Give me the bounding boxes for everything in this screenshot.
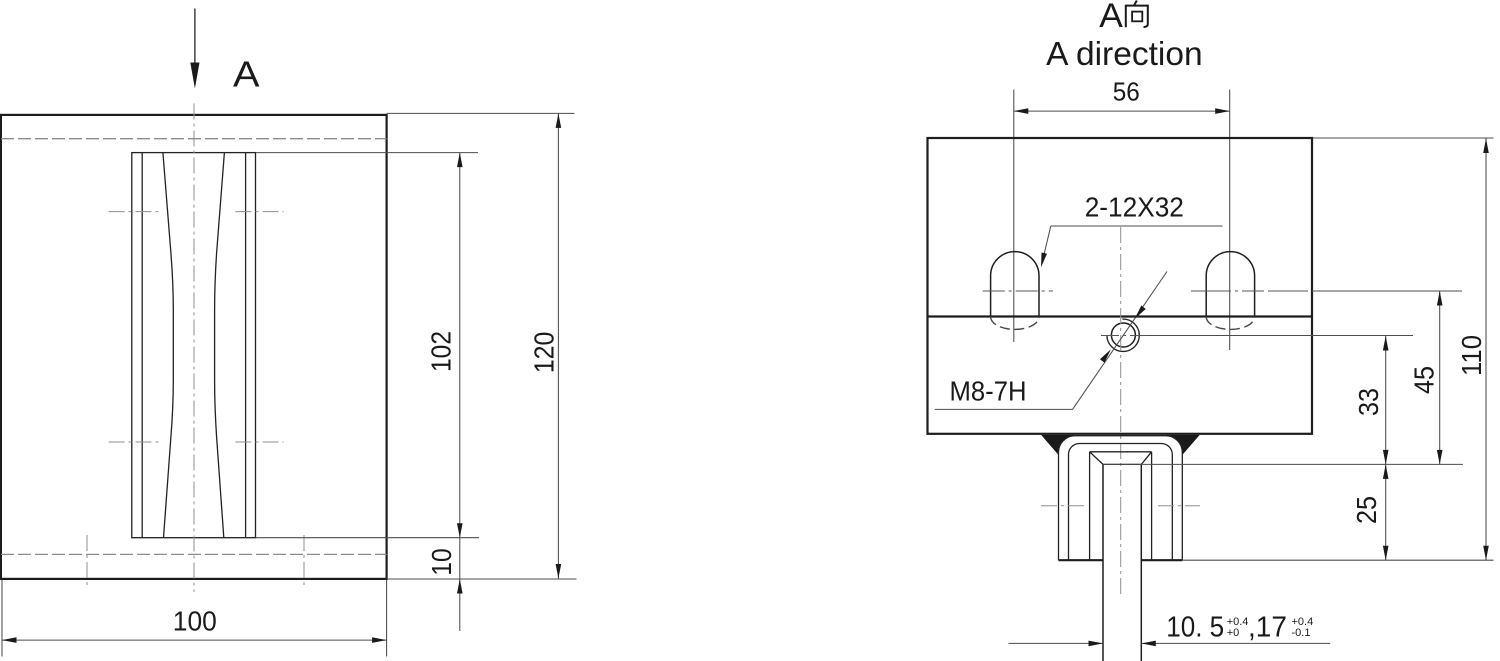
cross mark upper left (109, 211, 162, 213)
slot chamfer right (1141, 452, 1151, 465)
centerline vertical (193, 104, 195, 593)
cross mark lower left (109, 441, 162, 443)
body outline (928, 138, 1313, 434)
cross mark lower right (236, 441, 284, 443)
leader 2-12X32 shelf (1051, 225, 1223, 227)
foot second contour (1069, 444, 1173, 561)
extension line oval center right (1314, 290, 1462, 292)
tapped hole M8 inner circle (1111, 323, 1135, 347)
svg-text:2-12X32: 2-12X32 (1085, 191, 1184, 222)
foot cavity wall right (1151, 452, 1153, 560)
slot hole right hidden arc (1206, 317, 1254, 330)
extension line bottom right (387, 578, 577, 580)
dimension 100 line (2, 639, 387, 641)
tapped hole centerline horizontal (1101, 335, 1146, 337)
slot hole left centerline (983, 290, 1053, 292)
extension line body top right (1313, 137, 1494, 139)
view arrow A head (190, 63, 199, 89)
extension line 56 right / oval centerline (1229, 90, 1231, 351)
extension line slot bottom (256, 537, 480, 539)
svg-text:A: A (1099, 0, 1123, 35)
svg-text:A direction: A direction (1046, 35, 1202, 72)
foot cavity wall left (1089, 452, 1091, 560)
leader M8 diagonal (1073, 272, 1168, 410)
dimension 33/25 line (1385, 336, 1387, 560)
slot inner left line (141, 153, 143, 538)
svg-text:45: 45 (1409, 366, 1440, 394)
dimension 120 line (557, 113, 559, 578)
strip right edge (1140, 464, 1142, 661)
slot hole left hidden arc (991, 317, 1039, 330)
bottom cross vertical right (303, 535, 305, 588)
svg-text:A: A (233, 54, 260, 95)
hidden edge top (1, 138, 387, 140)
slot hole left solid (991, 252, 1039, 317)
slot taper right (215, 153, 225, 538)
svg-text:M8-7H: M8-7H (950, 376, 1027, 407)
leader 2-12X32 arrow line (1042, 226, 1051, 263)
foot bottom left (1059, 559, 1104, 561)
svg-text:+0: +0 (1227, 627, 1240, 639)
svg-text:33: 33 (1353, 388, 1384, 416)
extension line slot top (256, 152, 479, 154)
extension line 100 left (1, 580, 3, 657)
foot bottom right (1141, 559, 1182, 561)
tapped hole M8 thread arc (1107, 319, 1139, 351)
svg-text:102: 102 (426, 331, 457, 372)
extension line 56 left / oval centerline (1013, 90, 1015, 343)
foot centerline horizontal right (1158, 505, 1200, 507)
svg-text:10. 5: 10. 5 (1166, 612, 1224, 644)
slot hole right centerline (1191, 290, 1314, 292)
bottom cross vertical left (86, 535, 88, 588)
foot outer contour (1059, 436, 1183, 561)
hidden edge bottom (1, 553, 387, 555)
slot inner right line (245, 153, 247, 538)
slot chamfer left (1090, 452, 1103, 465)
svg-text:25: 25 (1351, 496, 1382, 524)
dimension 102/10 line (459, 153, 461, 631)
svg-text:-0.1: -0.1 (1292, 627, 1311, 639)
extension line 100 right (386, 580, 388, 657)
slot hole right solid (1206, 252, 1254, 317)
svg-text:100: 100 (173, 605, 217, 636)
svg-text:110: 110 (1456, 335, 1487, 376)
weld fillet left (1041, 435, 1075, 455)
strip left edge (1102, 464, 1104, 661)
extension line chamfer bottom (1103, 463, 1463, 465)
svg-text:,17: ,17 (1248, 612, 1287, 644)
slot chamfer top edge (1090, 451, 1152, 453)
body step line (928, 315, 1313, 317)
dimension 10.5 line left (1008, 642, 1103, 644)
extension line top right (387, 112, 575, 114)
dimension 56 line (1014, 110, 1230, 112)
dimension 10.5 line right (1141, 642, 1330, 644)
foot centerline horizontal left (1041, 505, 1087, 507)
left view body outline (1, 115, 387, 579)
dimension 45 line (1439, 291, 1441, 464)
slot chamfer bottom edge (1103, 463, 1141, 465)
svg-text:120: 120 (529, 332, 560, 374)
extension line foot bottom (1182, 559, 1493, 561)
extension line M8 center (1146, 335, 1413, 337)
body centerline vertical (1120, 227, 1122, 596)
svg-text:56: 56 (1113, 76, 1140, 106)
slot outline (132, 153, 256, 538)
title xiang glyph (1126, 1, 1148, 28)
dimension 110 line (1485, 139, 1487, 561)
cross mark upper right (236, 211, 284, 213)
slot taper left (163, 153, 173, 538)
view arrow A shaft (194, 9, 196, 65)
weld fillet right (1166, 435, 1200, 455)
leader M8 shelf (935, 408, 1073, 410)
svg-text:10: 10 (426, 548, 457, 576)
